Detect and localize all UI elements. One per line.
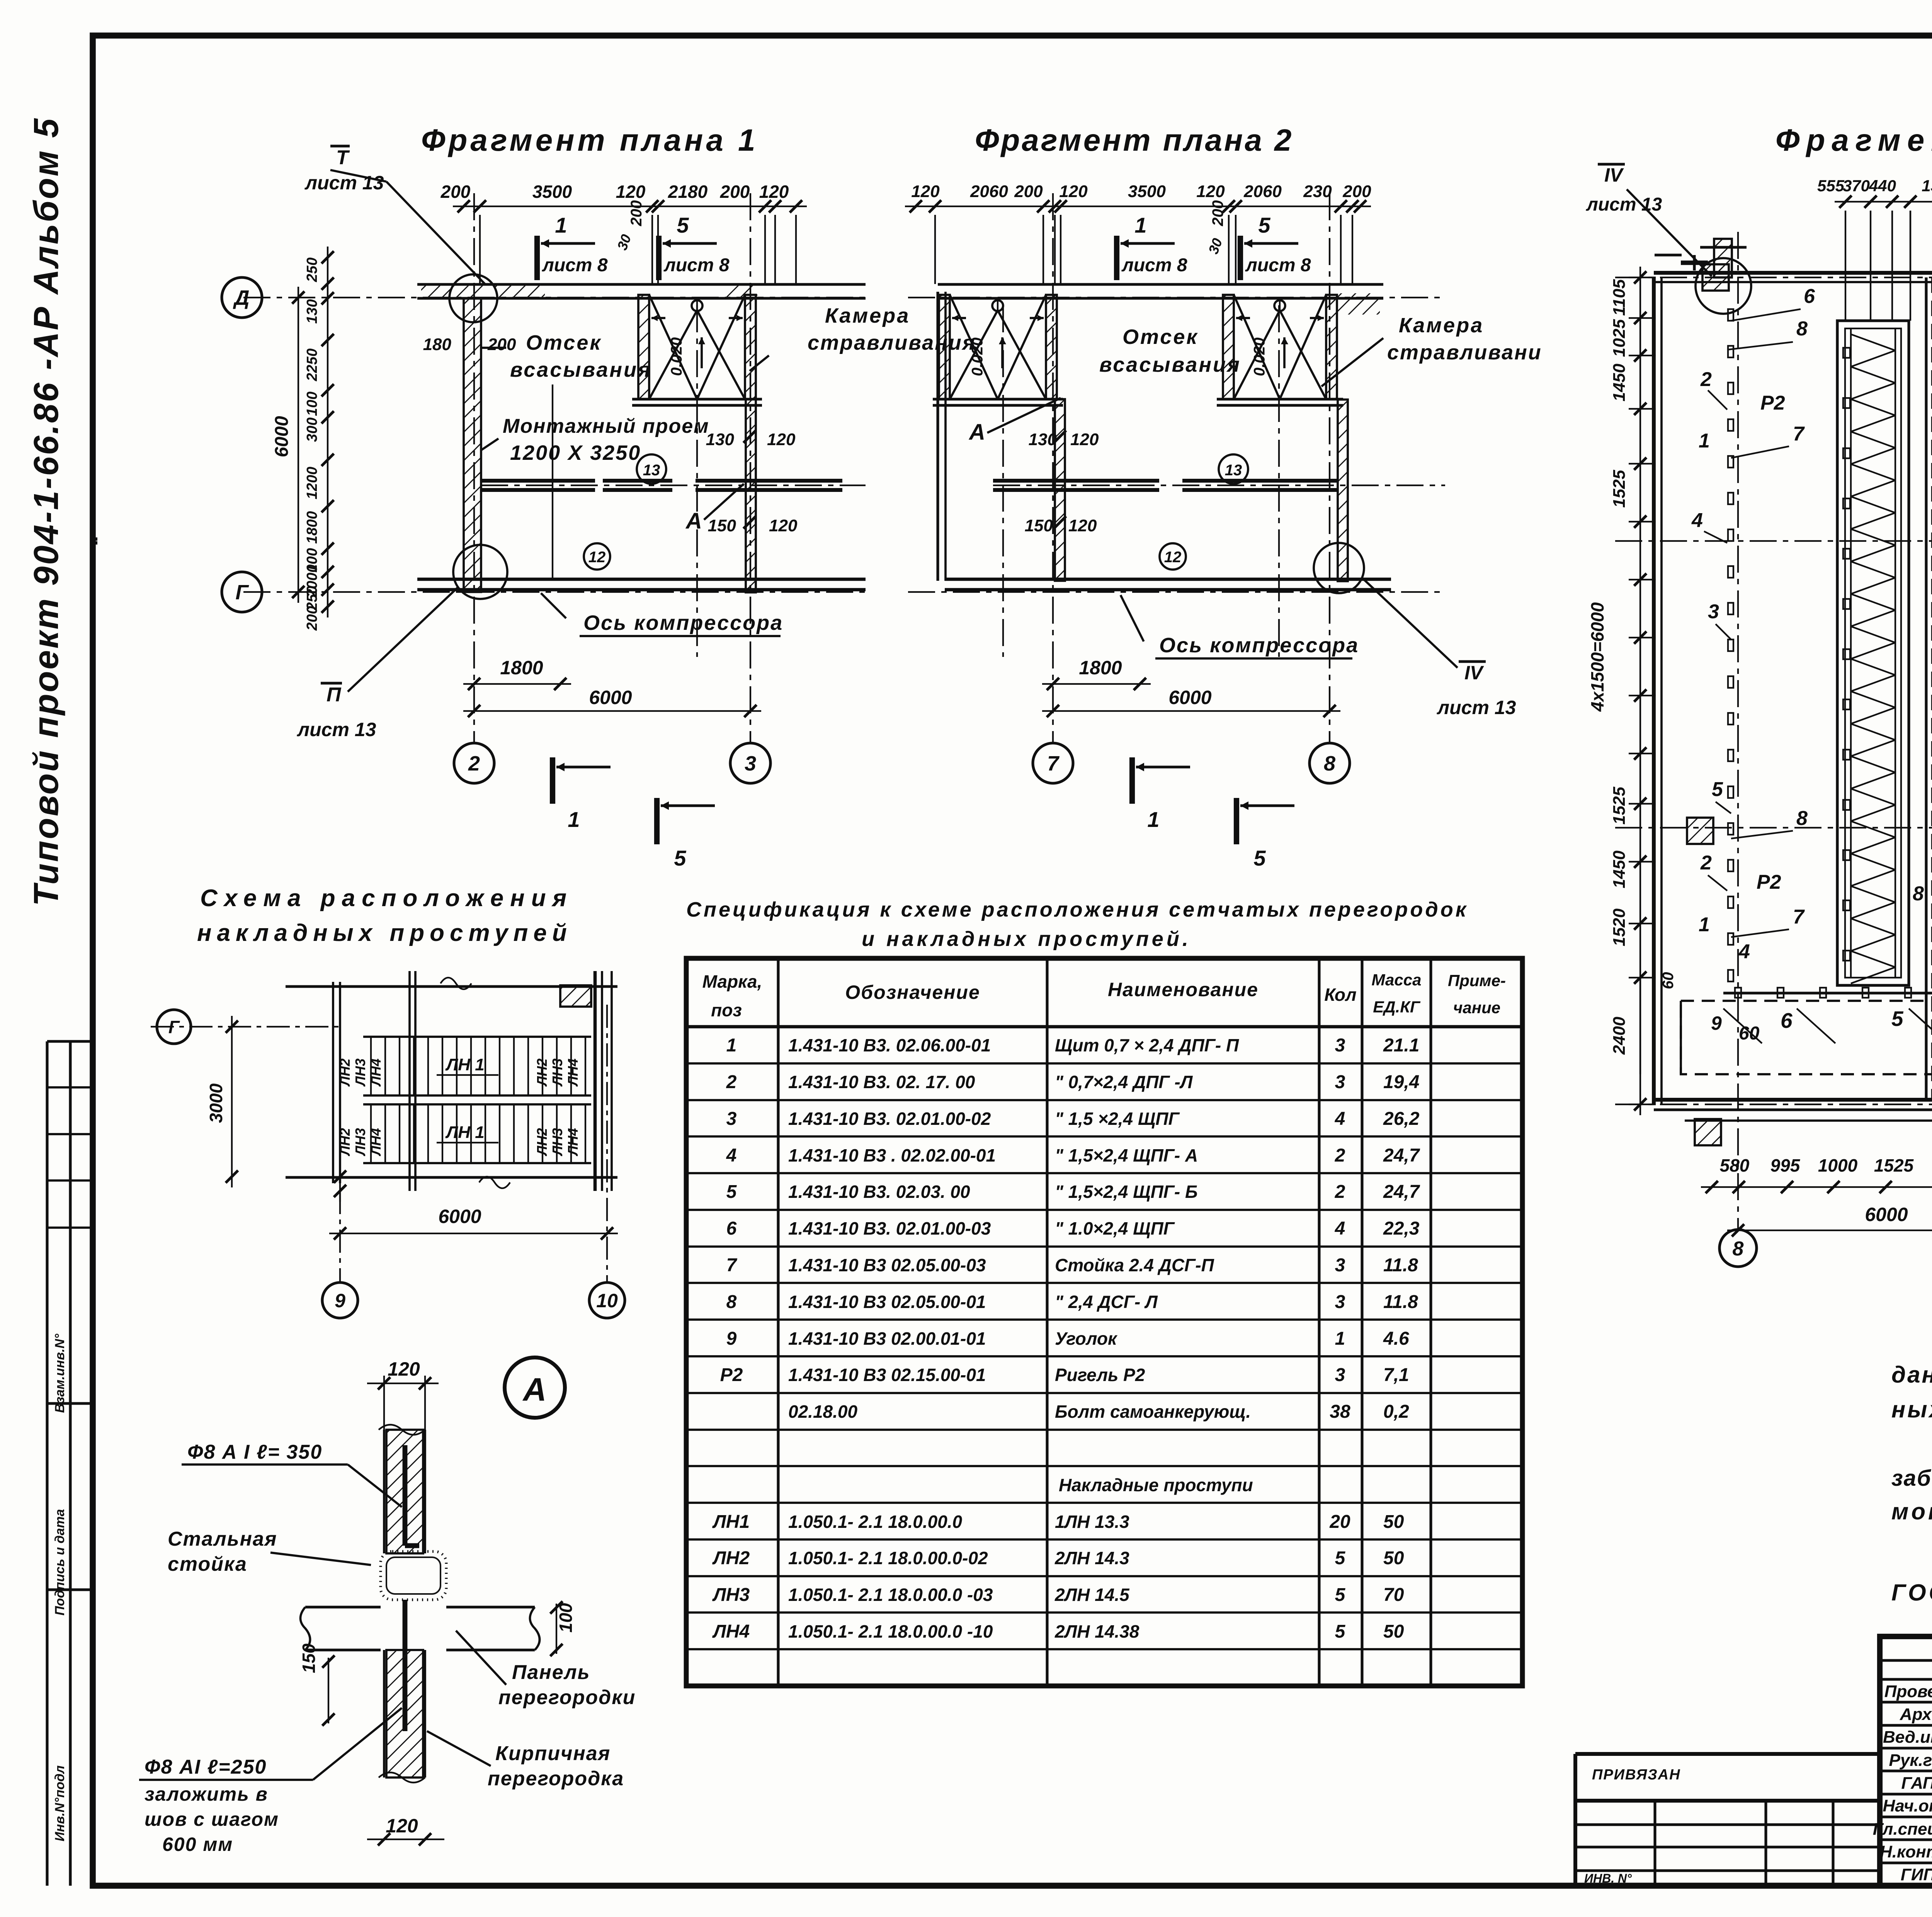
svg-text:забора и стравливания по осям: забора и стравливания по осям 3;4;5;6;7 … — [1891, 1466, 1932, 1491]
svg-text:370: 370 — [1843, 177, 1870, 195]
svg-text:20: 20 — [1329, 1512, 1350, 1532]
svg-text:200: 200 — [1342, 182, 1371, 201]
svg-text:4x1500=6000: 4x1500=6000 — [1587, 602, 1607, 712]
svg-text:2ЛН 14.38: 2ЛН 14.38 — [1054, 1621, 1139, 1641]
svg-text:6000: 6000 — [438, 1206, 481, 1227]
svg-text:7: 7 — [726, 1255, 738, 1276]
svg-text:120: 120 — [769, 516, 798, 535]
svg-text:7: 7 — [1047, 752, 1060, 775]
svg-text:ЛН3: ЛН3 — [549, 1128, 565, 1157]
svg-text:1525: 1525 — [1610, 470, 1629, 508]
svg-text:Схема расположения: Схема расположения — [200, 885, 573, 912]
svg-text:4.6: 4.6 — [1383, 1328, 1409, 1349]
svg-text:Приме-: Приме- — [1448, 971, 1506, 990]
svg-text:2: 2 — [1335, 1182, 1345, 1202]
svg-text:ПРИВЯЗАН: ПРИВЯЗАН — [1592, 1767, 1681, 1783]
svg-text:1.431-10 В3 02.05.00-03: 1.431-10 В3 02.05.00-03 — [788, 1255, 986, 1275]
svg-text:ГОСТ 22414-77. Общее колич: ГОСТ 22414-77. Общее количество шкафов -… — [1891, 1580, 1932, 1606]
svg-text:П: П — [327, 684, 342, 706]
svg-text:3: 3 — [1335, 1072, 1345, 1092]
svg-text:100: 100 — [556, 1603, 576, 1633]
svg-text:Наименование: Наименование — [1108, 979, 1259, 1000]
svg-text:Т: Т — [336, 146, 350, 169]
svg-text:7: 7 — [1793, 906, 1805, 928]
svg-text:Г: Г — [235, 581, 249, 604]
svg-text:" 1,5×2,4 ЩПГ- Б: " 1,5×2,4 ЩПГ- Б — [1055, 1182, 1198, 1202]
svg-text:3: 3 — [1335, 1292, 1345, 1312]
svg-text:70: 70 — [1383, 1585, 1404, 1605]
svg-text:200: 200 — [1209, 200, 1226, 226]
svg-text:4: 4 — [1738, 941, 1750, 963]
svg-text:10: 10 — [596, 1290, 618, 1311]
svg-text:4: 4 — [726, 1145, 737, 1166]
svg-text:2: 2 — [1700, 852, 1712, 874]
svg-text:6000: 6000 — [1168, 687, 1211, 708]
svg-text:580: 580 — [1720, 1155, 1750, 1175]
svg-text:9: 9 — [726, 1328, 737, 1349]
svg-text:1.431-10 В3 . 02.02.00-01: 1.431-10 В3 . 02.02.00-01 — [788, 1145, 996, 1165]
svg-text:ГИП: ГИП — [1901, 1865, 1932, 1884]
svg-text:2: 2 — [726, 1072, 737, 1092]
svg-text:1: 1 — [555, 213, 567, 237]
svg-text:ЛН4: ЛН4 — [368, 1058, 384, 1087]
svg-text:и накладных проступей.: и накладных проступей. — [862, 927, 1191, 951]
svg-text:Инв.N°подл: Инв.N°подл — [53, 1766, 67, 1842]
svg-text:3: 3 — [726, 1109, 737, 1129]
svg-text:6: 6 — [1804, 285, 1815, 308]
svg-text:600 мм: 600 мм — [162, 1834, 233, 1855]
svg-text:Р2: Р2 — [720, 1365, 743, 1385]
svg-text:Стальная: Стальная — [168, 1528, 277, 1550]
svg-text:Уголок: Уголок — [1055, 1328, 1118, 1349]
svg-text:Рук.гр.: Рук.гр. — [1889, 1751, 1932, 1770]
svg-text:230: 230 — [1303, 182, 1332, 201]
svg-text:1450: 1450 — [1610, 364, 1629, 401]
svg-text:Отсек: Отсек — [1122, 325, 1199, 349]
svg-text:Нач.ота: Нач.ота — [1883, 1796, 1932, 1815]
svg-text:2400: 2400 — [1610, 1017, 1629, 1055]
svg-text:2060: 2060 — [970, 182, 1008, 201]
svg-text:ЛН 1: ЛН 1 — [445, 1055, 485, 1074]
svg-text:Взам.инв.N°: Взам.инв.N° — [53, 1334, 67, 1413]
svg-text:5: 5 — [674, 846, 686, 870]
svg-text:3: 3 — [1708, 600, 1719, 623]
svg-text:300: 300 — [304, 417, 320, 442]
svg-text:Накладные проступи: Накладные проступи — [1059, 1475, 1253, 1495]
svg-text:50: 50 — [1383, 1548, 1404, 1568]
svg-text:даны в основном комплекте: даны в основном комплекте чертежей желез… — [1891, 1362, 1932, 1388]
svg-text:1: 1 — [726, 1035, 737, 1056]
svg-text:3000: 3000 — [206, 1083, 226, 1123]
svg-text:Кирпичная: Кирпичная — [495, 1742, 611, 1765]
svg-text:6000: 6000 — [1865, 1204, 1908, 1225]
svg-text:лист 13: лист 13 — [1586, 194, 1662, 215]
svg-text:3500: 3500 — [1128, 182, 1166, 201]
svg-text:1: 1 — [568, 807, 580, 832]
svg-text:1000: 1000 — [1818, 1155, 1858, 1175]
svg-text:1: 1 — [1147, 807, 1159, 832]
svg-text:200: 200 — [720, 182, 750, 202]
svg-text:лист 13: лист 13 — [1437, 697, 1516, 718]
svg-text:9: 9 — [1711, 1012, 1722, 1034]
svg-text:1.431-10 В3. 02.03. 00: 1.431-10 В3. 02.03. 00 — [788, 1182, 970, 1202]
svg-text:2: 2 — [468, 752, 480, 775]
svg-text:150: 150 — [708, 516, 736, 535]
svg-text:02.18.00: 02.18.00 — [788, 1402, 857, 1422]
svg-text:24,7: 24,7 — [1383, 1145, 1420, 1166]
svg-text:120: 120 — [1068, 516, 1097, 535]
svg-text:Р2: Р2 — [1757, 871, 1781, 893]
svg-text:1.050.1- 2.1 18.0.00.0 -03: 1.050.1- 2.1 18.0.00.0 -03 — [788, 1585, 993, 1605]
svg-text:1350: 1350 — [1922, 177, 1932, 195]
svg-text:1.050.1- 2.1 18.0.00.0-02: 1.050.1- 2.1 18.0.00.0-02 — [788, 1548, 988, 1568]
svg-text:1800: 1800 — [1079, 657, 1122, 679]
svg-text:4: 4 — [1335, 1109, 1345, 1129]
svg-text:0,2: 0,2 — [1383, 1402, 1409, 1422]
svg-text:2250: 2250 — [304, 349, 320, 382]
svg-text:Монтажный проем: Монтажный проем — [503, 415, 709, 437]
svg-text:заложить в: заложить в — [145, 1783, 268, 1805]
svg-text:120: 120 — [759, 182, 789, 202]
svg-text:лист 8: лист 8 — [1121, 255, 1187, 276]
svg-text:8: 8 — [1324, 752, 1335, 775]
svg-text:2: 2 — [1335, 1145, 1345, 1166]
svg-text:100: 100 — [304, 391, 320, 416]
svg-text:всасывания: всасывания — [510, 358, 652, 381]
svg-text:50: 50 — [1383, 1621, 1404, 1642]
svg-text:120: 120 — [1059, 182, 1088, 201]
svg-text:3: 3 — [1335, 1255, 1345, 1276]
svg-text:1: 1 — [1335, 1328, 1345, 1349]
svg-text:А: А — [968, 420, 985, 445]
svg-text:5: 5 — [1335, 1548, 1346, 1568]
svg-text:перегородка: перегородка — [488, 1767, 624, 1790]
svg-text:Камера: Камера — [825, 304, 910, 327]
svg-text:А: А — [522, 1371, 547, 1408]
svg-text:ЛН4: ЛН4 — [368, 1128, 384, 1157]
svg-text:лист 8: лист 8 — [663, 255, 730, 276]
svg-text:IV: IV — [1604, 164, 1624, 186]
svg-text:120: 120 — [767, 430, 796, 449]
svg-text:ЛН3: ЛН3 — [549, 1058, 565, 1087]
svg-text:1: 1 — [1699, 430, 1710, 452]
svg-text:перегородки: перегородки — [498, 1686, 636, 1709]
svg-text:3500: 3500 — [532, 182, 572, 202]
svg-text:5: 5 — [726, 1182, 737, 1202]
svg-text:Марка,: Марка, — [702, 971, 762, 992]
svg-text:Стойка 2.4 ДСГ-П: Стойка 2.4 ДСГ-П — [1055, 1255, 1214, 1275]
svg-text:3: 3 — [1335, 1365, 1345, 1385]
svg-text:" 0,7×2,4 ДПГ -Л: " 0,7×2,4 ДПГ -Л — [1055, 1072, 1193, 1092]
svg-text:стравливани: стравливани — [1387, 341, 1542, 364]
svg-text:1.050.1- 2.1 18.0.00.0: 1.050.1- 2.1 18.0.00.0 — [788, 1512, 963, 1532]
svg-text:21.1: 21.1 — [1383, 1035, 1419, 1056]
svg-text:монтажа оборудования: монтажа оборудования — [1891, 1499, 1932, 1524]
svg-text:250: 250 — [304, 257, 320, 282]
svg-text:440: 440 — [1869, 177, 1896, 195]
svg-text:13: 13 — [1225, 462, 1242, 479]
svg-text:Фрагмент плана 2: Фрагмент плана 2 — [975, 123, 1294, 157]
svg-text:2180: 2180 — [668, 182, 708, 202]
svg-text:5: 5 — [1712, 778, 1723, 801]
svg-text:0.020: 0.020 — [1251, 337, 1268, 376]
svg-text:Вед.инж: Вед.инж — [1883, 1728, 1932, 1747]
svg-text:8: 8 — [1796, 807, 1808, 830]
svg-text:120: 120 — [388, 1358, 420, 1380]
svg-text:1.431-10 В3 02.00.01-01: 1.431-10 В3 02.00.01-01 — [788, 1328, 986, 1349]
svg-text:5: 5 — [1891, 1007, 1904, 1031]
svg-text:130: 130 — [1029, 430, 1057, 449]
svg-text:ИНВ. N°: ИНВ. N° — [1584, 1871, 1632, 1885]
svg-text:Ф8 АI ℓ=250: Ф8 АI ℓ=250 — [145, 1756, 267, 1778]
svg-text:7: 7 — [1793, 423, 1805, 445]
svg-text:130: 130 — [304, 299, 320, 323]
svg-text:" 1,5 ×2,4 ЩПГ: " 1,5 ×2,4 ЩПГ — [1055, 1109, 1180, 1129]
svg-text:чание: чание — [1453, 998, 1500, 1017]
svg-text:38: 38 — [1330, 1402, 1350, 1422]
svg-text:ЛН2: ЛН2 — [534, 1058, 550, 1087]
svg-text:8: 8 — [726, 1292, 737, 1312]
svg-text:Ось компрессора: Ось компрессора — [1159, 634, 1359, 657]
svg-text:120: 120 — [616, 182, 646, 202]
svg-text:1.431-10 В3. 02. 17. 00: 1.431-10 В3. 02. 17. 00 — [788, 1072, 975, 1092]
svg-text:Спецификация к схеме расположе: Спецификация к схеме расположения сетчат… — [686, 898, 1468, 921]
svg-text:8: 8 — [1913, 883, 1924, 905]
svg-text:ЛН 1: ЛН 1 — [445, 1123, 485, 1142]
svg-text:1.431-10 В3. 02.01.00-03: 1.431-10 В3. 02.01.00-03 — [788, 1218, 991, 1238]
svg-text:13: 13 — [643, 462, 660, 479]
svg-text:2ЛН 14.5: 2ЛН 14.5 — [1054, 1585, 1130, 1605]
svg-text:24,7: 24,7 — [1383, 1182, 1420, 1202]
svg-text:60: 60 — [1660, 972, 1677, 990]
svg-text:ЛН2: ЛН2 — [534, 1128, 550, 1157]
svg-text:130: 130 — [706, 430, 735, 449]
svg-text:лист 13: лист 13 — [297, 719, 376, 740]
svg-text:150: 150 — [1025, 516, 1053, 535]
svg-text:200: 200 — [440, 182, 471, 202]
svg-text:Н.контр.: Н.контр. — [1880, 1842, 1932, 1861]
svg-text:Р2: Р2 — [1760, 392, 1785, 414]
svg-text:Арх.: Арх. — [1900, 1705, 1932, 1724]
svg-text:5: 5 — [677, 213, 689, 237]
svg-text:Щит 0,7 × 2,4 ДПГ- П: Щит 0,7 × 2,4 ДПГ- П — [1055, 1035, 1239, 1055]
svg-text:лист 8: лист 8 — [1245, 255, 1311, 276]
svg-text:200: 200 — [628, 200, 645, 226]
svg-text:1ЛН 13.3: 1ЛН 13.3 — [1055, 1512, 1129, 1532]
svg-text:Г: Г — [168, 1017, 180, 1037]
svg-text:4: 4 — [1335, 1218, 1345, 1239]
svg-text:9: 9 — [335, 1290, 345, 1311]
svg-text:1.431-10 В3 02.05.00-01: 1.431-10 В3 02.05.00-01 — [788, 1292, 986, 1312]
svg-text:ных конструкций ТП904-1-: ных конструкций ТП904-1- -КЖ — [1891, 1397, 1932, 1422]
svg-text:поз: поз — [711, 1000, 742, 1020]
svg-text:26,2: 26,2 — [1383, 1109, 1420, 1129]
svg-text:120: 120 — [1070, 430, 1099, 449]
svg-text:" 2,4 ДСГ- Л: " 2,4 ДСГ- Л — [1055, 1292, 1158, 1312]
svg-text:" 1.0×2,4 ЩПГ: " 1.0×2,4 ЩПГ — [1055, 1218, 1175, 1238]
svg-text:150: 150 — [299, 1643, 319, 1673]
svg-text:ЛН3: ЛН3 — [712, 1585, 750, 1605]
svg-text:А: А — [685, 509, 702, 534]
svg-text:4: 4 — [1691, 509, 1703, 532]
svg-text:Болт самоанкерующ.: Болт самоанкерующ. — [1055, 1402, 1251, 1422]
svg-text:11.8: 11.8 — [1383, 1255, 1418, 1276]
svg-text:2060: 2060 — [1243, 182, 1282, 201]
svg-text:120: 120 — [1196, 182, 1225, 201]
svg-text:1025: 1025 — [1610, 319, 1629, 357]
svg-text:ЛН3: ЛН3 — [352, 1128, 368, 1157]
svg-text:5: 5 — [1258, 213, 1270, 237]
svg-text:ЛН4: ЛН4 — [565, 1058, 581, 1087]
svg-text:ЛН1: ЛН1 — [712, 1512, 750, 1532]
svg-text:Панель: Панель — [512, 1661, 590, 1684]
svg-text:1200: 1200 — [304, 467, 320, 500]
svg-text:1520: 1520 — [1610, 908, 1629, 946]
svg-text:1: 1 — [1134, 213, 1146, 237]
svg-text:Ось компрессора: Ось компрессора — [583, 611, 783, 634]
svg-text:IV: IV — [1464, 662, 1484, 684]
svg-text:" 1,5×2,4 ЩПГ- А: " 1,5×2,4 ЩПГ- А — [1055, 1145, 1198, 1165]
svg-text:ЕД.КГ: ЕД.КГ — [1373, 998, 1421, 1016]
svg-text:8: 8 — [1796, 318, 1808, 340]
svg-text:Д: Д — [233, 286, 250, 310]
svg-text:Гл.спецто: Гл.спецто — [1873, 1820, 1932, 1839]
svg-text:Типовой проект 904-1-66.86 -: Типовой проект 904-1-66.86 -АР Альбом 5 — [27, 117, 66, 906]
svg-text:120: 120 — [911, 182, 940, 201]
svg-text:Фрагмент плана 1: Фрагмент плана 1 — [421, 123, 759, 157]
svg-text:ЛН2: ЛН2 — [337, 1058, 353, 1087]
svg-text:Ригель Р2: Ригель Р2 — [1055, 1365, 1145, 1385]
svg-text:12: 12 — [1164, 549, 1182, 566]
svg-text:Кол: Кол — [1324, 985, 1356, 1005]
svg-text:лист 13: лист 13 — [304, 172, 384, 194]
svg-text:1.431-10 В3 02.15.00-01: 1.431-10 В3 02.15.00-01 — [788, 1365, 986, 1385]
svg-text:накладных проступей: накладных проступей — [197, 920, 572, 946]
svg-text:Обозначение: Обозначение — [845, 981, 980, 1003]
svg-text:11.8: 11.8 — [1383, 1292, 1418, 1312]
svg-text:5: 5 — [1253, 846, 1266, 870]
svg-text:ЛН3: ЛН3 — [352, 1058, 368, 1087]
svg-text:200: 200 — [304, 606, 320, 631]
svg-text:1800: 1800 — [500, 657, 543, 679]
svg-text:8: 8 — [1733, 1238, 1744, 1260]
svg-text:Фрагмент плана 3: Фрагмент плана 3 — [1776, 123, 1932, 157]
svg-text:Провер.: Провер. — [1884, 1682, 1932, 1701]
svg-text:ЛН4: ЛН4 — [565, 1128, 581, 1157]
svg-text:0.020: 0.020 — [969, 337, 986, 376]
svg-text:19,4: 19,4 — [1383, 1072, 1419, 1092]
svg-text:2ЛН 14.3: 2ЛН 14.3 — [1054, 1548, 1129, 1568]
svg-text:ЛН2: ЛН2 — [712, 1548, 750, 1568]
svg-text:стойка: стойка — [168, 1553, 247, 1575]
svg-text:12: 12 — [588, 549, 606, 566]
svg-text:3: 3 — [745, 752, 756, 775]
svg-text:Масса: Масса — [1372, 971, 1422, 989]
svg-text:1.431-10 В3. 02.06.00-01: 1.431-10 В3. 02.06.00-01 — [788, 1035, 991, 1055]
svg-text:6: 6 — [726, 1218, 737, 1239]
svg-text:0.020: 0.020 — [668, 337, 685, 376]
svg-text:1.431-10 В3. 02.01.00-02: 1.431-10 В3. 02.01.00-02 — [788, 1109, 991, 1129]
svg-text:Подпись и дата: Подпись и дата — [53, 1509, 67, 1616]
svg-text:5: 5 — [1335, 1585, 1346, 1605]
svg-text:1105: 1105 — [1610, 279, 1629, 316]
svg-text:6000: 6000 — [272, 416, 292, 457]
svg-text:1525: 1525 — [1874, 1155, 1914, 1175]
svg-text:5: 5 — [1335, 1621, 1346, 1642]
svg-text:всасывания: всасывания — [1099, 353, 1241, 376]
svg-text:7,1: 7,1 — [1383, 1365, 1409, 1385]
svg-text:6000: 6000 — [589, 687, 632, 708]
svg-text:1800: 1800 — [304, 511, 320, 544]
svg-text:22,3: 22,3 — [1383, 1218, 1420, 1239]
svg-text:1: 1 — [1699, 913, 1710, 936]
svg-text:Отсек: Отсек — [526, 331, 602, 354]
svg-text:6: 6 — [1781, 1009, 1793, 1032]
svg-text:120: 120 — [386, 1815, 418, 1837]
svg-text:1450: 1450 — [1610, 850, 1629, 888]
svg-text:3: 3 — [1335, 1035, 1345, 1056]
svg-text:50: 50 — [1383, 1512, 1404, 1532]
svg-text:Камера: Камера — [1399, 314, 1484, 337]
svg-text:995: 995 — [1770, 1155, 1801, 1175]
svg-text:шов с шагом: шов с шагом — [145, 1808, 279, 1830]
svg-text:Ф8 А I ℓ= 350: Ф8 А I ℓ= 350 — [187, 1441, 322, 1463]
svg-text:1.050.1- 2.1 18.0.00.0 -10: 1.050.1- 2.1 18.0.00.0 -10 — [788, 1621, 993, 1641]
svg-text:ЛН2: ЛН2 — [337, 1128, 353, 1157]
svg-text:лист 8: лист 8 — [542, 255, 608, 276]
svg-text:ГАП: ГАП — [1901, 1774, 1932, 1793]
svg-text:1200 X 3250: 1200 X 3250 — [510, 441, 641, 464]
svg-text:2: 2 — [1700, 368, 1712, 391]
svg-text:200: 200 — [1014, 182, 1043, 201]
svg-text:1525: 1525 — [1610, 787, 1629, 825]
svg-text:555: 555 — [1817, 177, 1845, 195]
svg-text:200: 200 — [487, 335, 516, 354]
svg-text:ЛН4: ЛН4 — [712, 1621, 750, 1642]
svg-text:180: 180 — [423, 335, 452, 354]
